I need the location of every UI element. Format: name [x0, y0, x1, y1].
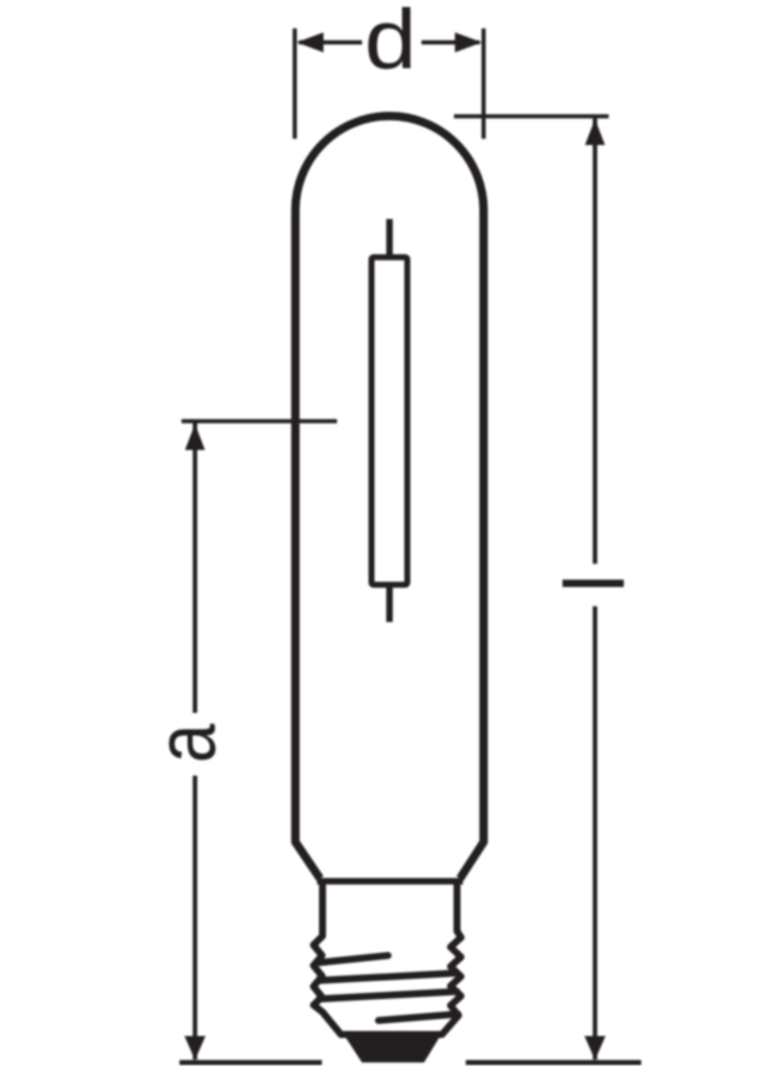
thread line 4 (lower partial) — [379, 1014, 459, 1021]
dimension d: right arrow — [455, 32, 482, 52]
baseline right segment — [466, 1060, 641, 1065]
thread line 2 — [319, 973, 457, 981]
arc tube bottom stem — [386, 585, 393, 622]
dimension l: vertical line upper — [593, 118, 598, 563]
base skirt line — [317, 878, 463, 885]
dimension d: left extension line — [293, 28, 297, 138]
arc tube (inner discharge tube) — [372, 257, 408, 584]
dimension a: top extension line — [182, 419, 338, 423]
bulb envelope outline (tubular lamp glass) — [295, 116, 483, 879]
svg-text:d: d — [364, 0, 416, 86]
thread line 3 — [319, 992, 457, 1000]
svg-text:l: l — [548, 574, 642, 593]
screw base outline with thread zigzag — [314, 879, 462, 1035]
base contact tip (solid) — [346, 1038, 439, 1063]
dimension d: left shaft — [299, 40, 362, 44]
thread line 1 (upper partial) — [320, 956, 388, 963]
dimension d: right extension line — [482, 28, 486, 138]
dimension a: vertical line lower — [193, 776, 198, 1060]
dimension l: up arrow — [585, 119, 605, 145]
dimension a: vertical line upper — [193, 423, 198, 713]
dimension a: down arrow — [185, 1036, 206, 1060]
dimension l: down arrow — [585, 1036, 606, 1060]
arc tube top stem — [386, 219, 393, 257]
dimension d: right shaft — [422, 40, 480, 44]
dimension l: vertical line lower — [593, 606, 598, 1059]
baseline left segment — [180, 1060, 322, 1065]
dimension l: top extension line — [454, 114, 609, 118]
svg-text:a: a — [140, 723, 233, 763]
dimension a: up arrow — [185, 424, 205, 450]
dimension d: left arrow — [297, 32, 324, 52]
